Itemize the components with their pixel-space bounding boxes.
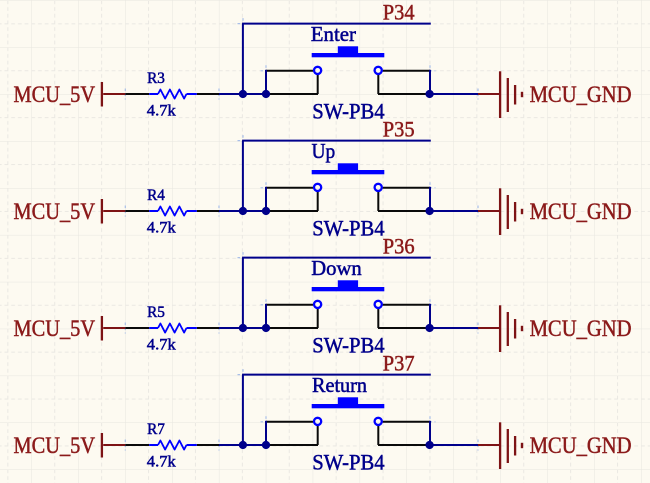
svg-text:MCU_GND: MCU_GND [530, 433, 632, 459]
svg-text:R3: R3 [147, 70, 165, 87]
svg-text:R7: R7 [147, 421, 165, 438]
svg-text:SW-PB4: SW-PB4 [312, 216, 384, 241]
svg-text:Down: Down [311, 257, 362, 280]
svg-text:4.7k: 4.7k [147, 454, 176, 471]
svg-text:P37: P37 [383, 351, 415, 376]
svg-text:MCU_5V: MCU_5V [14, 316, 96, 342]
svg-text:SW-PB4: SW-PB4 [312, 450, 384, 475]
svg-text:R5: R5 [147, 304, 165, 321]
svg-text:MCU_5V: MCU_5V [14, 199, 96, 225]
svg-text:4.7k: 4.7k [147, 220, 176, 237]
svg-text:MCU_GND: MCU_GND [530, 199, 632, 225]
svg-text:MCU_5V: MCU_5V [14, 82, 96, 108]
svg-text:MCU_GND: MCU_GND [530, 82, 632, 108]
svg-text:Up: Up [312, 140, 336, 163]
svg-text:Return: Return [312, 374, 368, 397]
svg-text:P36: P36 [383, 234, 415, 259]
svg-text:P34: P34 [383, 0, 415, 25]
svg-text:MCU_5V: MCU_5V [14, 433, 96, 459]
svg-text:MCU_GND: MCU_GND [530, 316, 632, 342]
svg-text:4.7k: 4.7k [147, 103, 176, 120]
svg-text:R4: R4 [147, 187, 165, 204]
svg-text:SW-PB4: SW-PB4 [312, 333, 384, 358]
svg-text:P35: P35 [383, 117, 415, 142]
svg-text:Enter: Enter [311, 23, 356, 46]
svg-text:4.7k: 4.7k [147, 337, 176, 354]
svg-text:SW-PB4: SW-PB4 [312, 99, 384, 124]
